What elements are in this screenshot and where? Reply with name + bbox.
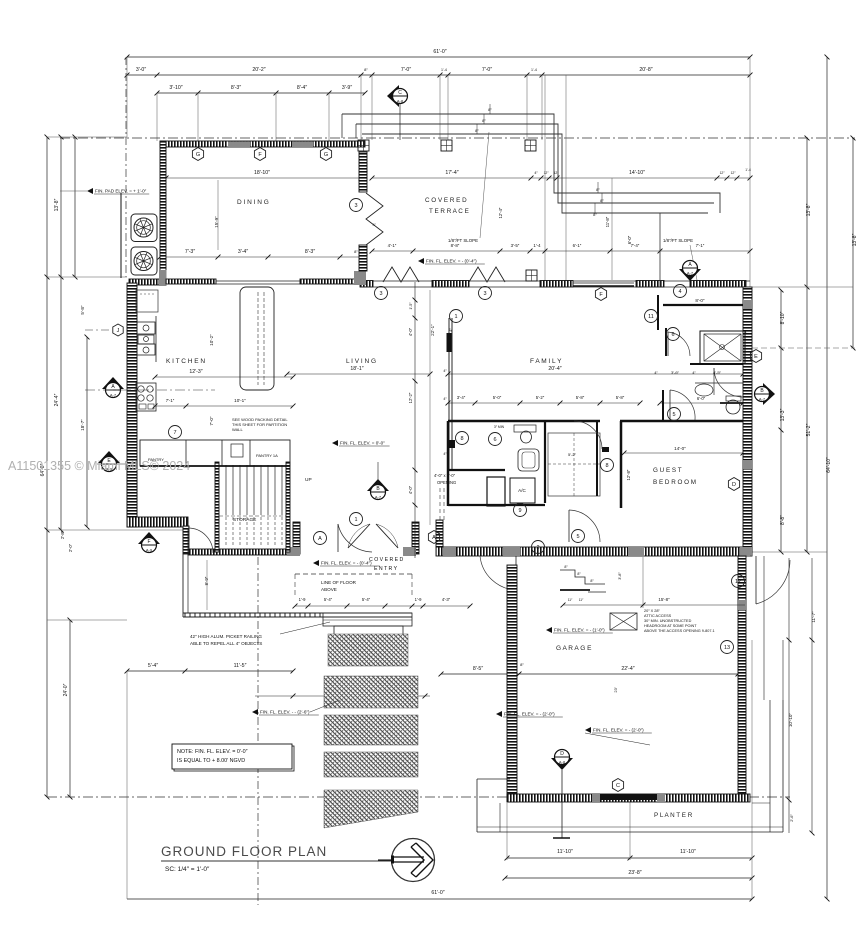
svg-text:3′-5″: 3′-5″ bbox=[511, 243, 520, 248]
svg-text:2′-0″: 2′-0″ bbox=[68, 543, 73, 552]
svg-text:15′-8″: 15′-8″ bbox=[658, 597, 670, 602]
svg-text:1'-4: 1'-4 bbox=[531, 68, 537, 72]
svg-text:3: 3 bbox=[483, 291, 486, 297]
svg-text:FIN. FL. ELEV. = - (0′-4″): FIN. FL. ELEV. = - (0′-4″) bbox=[426, 259, 477, 264]
svg-text:51′-2″: 51′-2″ bbox=[806, 423, 812, 436]
svg-text:5′-4″: 5′-4″ bbox=[324, 597, 333, 602]
svg-text:42″ HIGH ALUM. PICKET RAILING: 42″ HIGH ALUM. PICKET RAILING bbox=[190, 634, 262, 639]
svg-text:SC: 1/4″ = 1′-0″: SC: 1/4″ = 1′-0″ bbox=[165, 866, 210, 873]
svg-text:1'-4: 1'-4 bbox=[441, 68, 447, 72]
svg-text:A11501355 © Miami MLS© 2024: A11501355 © Miami MLS© 2024 bbox=[8, 459, 190, 473]
svg-text:8′-3″: 8′-3″ bbox=[231, 85, 241, 91]
svg-text:OPENING: OPENING bbox=[437, 480, 456, 485]
svg-text:D: D bbox=[732, 482, 736, 488]
svg-text:8′-9″: 8′-9″ bbox=[204, 576, 209, 585]
svg-text:G A R A G E: G A R A G E bbox=[556, 645, 592, 652]
svg-text:18′-10″: 18′-10″ bbox=[254, 170, 270, 176]
svg-text:11′-10″: 11′-10″ bbox=[557, 849, 573, 855]
svg-text:12′-3″: 12′-3″ bbox=[189, 369, 202, 375]
svg-text:C O V E R E D: C O V E R E D bbox=[425, 197, 467, 204]
svg-text:A-8: A-8 bbox=[397, 99, 404, 104]
svg-text:11′-7″: 11′-7″ bbox=[811, 611, 816, 623]
svg-text:7′-3″: 7′-3″ bbox=[185, 249, 195, 255]
svg-text:24′-0″: 24′-0″ bbox=[63, 683, 69, 696]
svg-text:6′-0″: 6′-0″ bbox=[697, 396, 706, 401]
svg-text:8′-10″: 8′-10″ bbox=[780, 311, 786, 324]
svg-text:7′-0″: 7′-0″ bbox=[482, 67, 492, 73]
svg-text:3′-4″: 3′-4″ bbox=[238, 249, 248, 255]
svg-text:FIN. FL. ELEV. - - (2′-6″): FIN. FL. ELEV. - - (2′-6″) bbox=[260, 710, 310, 715]
svg-text:G U E S T: G U E S T bbox=[653, 467, 682, 474]
svg-text:C: C bbox=[398, 90, 402, 96]
svg-text:STORAGE: STORAGE bbox=[233, 517, 256, 523]
svg-text:11′-10″: 11′-10″ bbox=[680, 849, 696, 855]
svg-text:7′-4″: 7′-4″ bbox=[631, 243, 640, 248]
svg-text:4′-1″: 4′-1″ bbox=[388, 243, 397, 248]
svg-text:4′-0″ x 8′-0″: 4′-0″ x 8′-0″ bbox=[434, 473, 456, 478]
svg-text:WALL: WALL bbox=[232, 427, 244, 432]
svg-text:3′-8″: 3′-8″ bbox=[618, 572, 622, 580]
svg-text:G: G bbox=[324, 152, 328, 158]
svg-text:23′: 23′ bbox=[613, 687, 618, 692]
svg-text:30″ MIN. UNOBSTRUCTED: 30″ MIN. UNOBSTRUCTED bbox=[644, 619, 692, 623]
svg-text:3: 3 bbox=[354, 203, 357, 209]
svg-text:64′-10″: 64′-10″ bbox=[826, 457, 832, 473]
svg-text:3′-0″: 3′-0″ bbox=[136, 67, 146, 73]
svg-text:A-7: A-7 bbox=[759, 397, 766, 402]
svg-text:A-7: A-7 bbox=[687, 271, 694, 276]
svg-text:8″: 8″ bbox=[520, 662, 524, 667]
svg-text:8′-4″: 8′-4″ bbox=[297, 85, 307, 91]
svg-text:18′-1″: 18′-1″ bbox=[350, 366, 363, 372]
svg-text:20′-4″: 20′-4″ bbox=[548, 366, 561, 372]
svg-text:13′-8″: 13′-8″ bbox=[54, 198, 60, 211]
svg-text:1: 1 bbox=[454, 314, 457, 320]
svg-text:T E R R A C E: T E R R A C E bbox=[429, 208, 469, 215]
svg-text:3″ MIN: 3″ MIN bbox=[494, 425, 505, 429]
svg-text:8′-0″: 8′-0″ bbox=[695, 298, 705, 303]
svg-text:1: 1 bbox=[354, 517, 357, 523]
svg-text:3′-4″: 3′-4″ bbox=[457, 395, 466, 400]
svg-text:ABOVE: ABOVE bbox=[321, 587, 337, 592]
svg-text:8′-5″: 8′-5″ bbox=[473, 666, 483, 672]
svg-text:K I T C H E N: K I T C H E N bbox=[166, 358, 205, 365]
svg-text:FIN. FL. ELEV. = - (2′-0″): FIN. FL. ELEV. = - (2′-0″) bbox=[504, 712, 555, 717]
svg-text:22′-4″: 22′-4″ bbox=[621, 666, 634, 672]
svg-text:13′-8″: 13′-8″ bbox=[806, 203, 812, 216]
svg-text:F: F bbox=[147, 539, 150, 545]
svg-text:7′-1″: 7′-1″ bbox=[696, 243, 705, 248]
svg-text:LINE OF FLOOR: LINE OF FLOOR bbox=[321, 580, 357, 585]
svg-text:20″ X 28″: 20″ X 28″ bbox=[644, 609, 660, 613]
svg-text:12″: 12″ bbox=[731, 171, 737, 175]
svg-text:5′-8″: 5′-8″ bbox=[80, 305, 85, 315]
svg-text:1'-9: 1'-9 bbox=[299, 597, 307, 602]
svg-text:8′-3″: 8′-3″ bbox=[305, 249, 315, 255]
svg-text:7′-1″: 7′-1″ bbox=[166, 398, 175, 403]
svg-text:12″: 12″ bbox=[720, 171, 726, 175]
svg-text:13: 13 bbox=[724, 645, 730, 651]
svg-text:20′-2″: 20′-2″ bbox=[252, 67, 265, 73]
svg-text:3: 3 bbox=[379, 291, 382, 297]
svg-text:17′-4″: 17′-4″ bbox=[445, 170, 458, 176]
svg-text:1′-5″: 1′-5″ bbox=[409, 302, 413, 310]
svg-text:4′-5″: 4′-5″ bbox=[713, 370, 722, 375]
svg-text:L I V I N G: L I V I N G bbox=[346, 358, 376, 365]
svg-text:3′-10″: 3′-10″ bbox=[169, 85, 182, 91]
svg-text:5′-8″: 5′-8″ bbox=[576, 395, 585, 400]
svg-text:5: 5 bbox=[576, 534, 579, 540]
svg-text:5: 5 bbox=[672, 412, 675, 418]
svg-text:13′-8″: 13′-8″ bbox=[852, 233, 858, 246]
svg-text:5′-0″: 5′-0″ bbox=[493, 395, 502, 400]
svg-text:8″: 8″ bbox=[600, 198, 604, 203]
svg-text:2: 2 bbox=[536, 545, 539, 551]
svg-text:5′-4″: 5′-4″ bbox=[148, 663, 158, 669]
svg-text:12: 12 bbox=[735, 579, 741, 585]
svg-text:D: D bbox=[560, 751, 564, 757]
svg-text:FIN. FL. ELEV. = 0′-0″: FIN. FL. ELEV. = 0′-0″ bbox=[340, 441, 385, 446]
svg-text:12″: 12″ bbox=[544, 171, 550, 175]
svg-text:8″: 8″ bbox=[488, 107, 492, 112]
svg-text:FIN. FL. ELEV. = - (0′-4″): FIN. FL. ELEV. = - (0′-4″) bbox=[321, 561, 372, 566]
svg-text:11′-5″: 11′-5″ bbox=[234, 663, 247, 669]
svg-text:8: 8 bbox=[605, 463, 608, 469]
svg-text:3′-9″: 3′-9″ bbox=[342, 85, 352, 91]
svg-text:A: A bbox=[432, 535, 436, 541]
svg-text:C O V E R E D: C O V E R E D bbox=[369, 557, 404, 563]
svg-text:2′-8″: 2′-8″ bbox=[60, 530, 65, 539]
svg-text:4: 4 bbox=[678, 289, 681, 295]
svg-text:1'-4: 1'-4 bbox=[745, 168, 751, 172]
svg-text:NOTE: FIN. FL. ELEV. = 0′: NOTE: FIN. FL. ELEV. = 0′-0″ bbox=[177, 749, 248, 755]
svg-text:12′-8″: 12′-8″ bbox=[626, 469, 631, 480]
svg-text:4′-3″: 4′-3″ bbox=[442, 597, 451, 602]
svg-text:4′-0″: 4′-0″ bbox=[408, 485, 413, 494]
svg-text:6′-1″: 6′-1″ bbox=[573, 243, 582, 248]
svg-text:11′-8″: 11′-8″ bbox=[605, 216, 610, 227]
svg-text:11: 11 bbox=[648, 314, 654, 320]
svg-text:5′-8″: 5′-8″ bbox=[616, 395, 625, 400]
svg-text:12′-4″: 12′-4″ bbox=[498, 207, 503, 218]
svg-text:A: A bbox=[318, 536, 322, 542]
svg-text:G: G bbox=[196, 152, 200, 158]
svg-text:6: 6 bbox=[671, 332, 674, 338]
svg-text:9: 9 bbox=[518, 508, 521, 514]
svg-text:UP: UP bbox=[305, 477, 312, 483]
svg-text:12′-2″: 12′-2″ bbox=[408, 392, 413, 403]
svg-text:5′-4″: 5′-4″ bbox=[362, 597, 371, 602]
svg-text:ABOVE THE ACCESS OPENING 9-807: ABOVE THE ACCESS OPENING 9-807.1 bbox=[644, 629, 715, 633]
svg-text:1'-9: 1'-9 bbox=[415, 597, 423, 602]
svg-text:1'-4: 1'-4 bbox=[533, 243, 541, 248]
svg-text:14′-10″: 14′-10″ bbox=[629, 170, 645, 176]
svg-text:24′-4″: 24′-4″ bbox=[54, 393, 60, 406]
svg-text:PANTRY 1A: PANTRY 1A bbox=[256, 453, 278, 458]
svg-text:23′-8″: 23′-8″ bbox=[628, 870, 641, 876]
svg-text:IS EQUAL TO + 8.00′ NGVD: IS EQUAL TO + 8.00′ NGVD bbox=[177, 758, 245, 764]
svg-text:P L A N T E R: P L A N T E R bbox=[654, 812, 693, 819]
svg-text:A-8: A-8 bbox=[559, 760, 566, 765]
svg-text:ABLE TO REPEL ALL 4″ OBJECTS: ABLE TO REPEL ALL 4″ OBJECTS bbox=[190, 641, 262, 646]
svg-text:20′-8″: 20′-8″ bbox=[639, 67, 652, 73]
svg-text:13′-3″: 13′-3″ bbox=[780, 408, 786, 421]
svg-text:F A M I L Y: F A M I L Y bbox=[530, 358, 562, 365]
svg-text:A/C: A/C bbox=[518, 488, 526, 493]
svg-text:D I N I N G: D I N I N G bbox=[237, 199, 269, 206]
svg-text:B E D R O O M: B E D R O O M bbox=[653, 479, 696, 486]
svg-text:J: J bbox=[117, 328, 120, 334]
svg-text:FIN. FL. ELEV. = - (1′-0″): FIN. FL. ELEV. = - (1′-0″) bbox=[554, 628, 605, 633]
svg-text:8″: 8″ bbox=[482, 118, 486, 123]
svg-text:FIN. FL. ELEV. = - (2′-0″): FIN. FL. ELEV. = - (2′-0″) bbox=[593, 728, 644, 733]
svg-text:4′-0″: 4′-0″ bbox=[408, 327, 413, 336]
svg-text:3′-6″: 3′-6″ bbox=[671, 370, 680, 375]
svg-text:6: 6 bbox=[493, 437, 496, 443]
svg-text:18′-7″: 18′-7″ bbox=[80, 419, 85, 431]
svg-text:22′-1″: 22′-1″ bbox=[430, 324, 435, 336]
svg-text:8″: 8″ bbox=[364, 67, 368, 72]
svg-text:14′-0″: 14′-0″ bbox=[674, 446, 686, 451]
svg-text:10′-1″: 10′-1″ bbox=[234, 398, 246, 403]
svg-text:HEADROOM AT SOME POINT: HEADROOM AT SOME POINT bbox=[644, 624, 697, 628]
svg-text:C: C bbox=[616, 783, 620, 789]
svg-text:8″: 8″ bbox=[596, 187, 600, 192]
svg-text:4′: 4′ bbox=[373, 222, 376, 227]
svg-text:A-7: A-7 bbox=[110, 393, 117, 398]
svg-text:8″: 8″ bbox=[475, 128, 479, 133]
svg-text:7′-0″: 7′-0″ bbox=[209, 416, 214, 426]
svg-text:FIN. PAD ELEV. = + 1′-0″: FIN. PAD ELEV. = + 1′-0″ bbox=[95, 189, 147, 194]
svg-text:7′-0″: 7′-0″ bbox=[401, 67, 411, 73]
svg-text:5′-2″: 5′-2″ bbox=[536, 395, 545, 400]
svg-text:8′-8″: 8′-8″ bbox=[451, 243, 460, 248]
svg-text:5′-2″: 5′-2″ bbox=[568, 452, 577, 457]
svg-text:A-9: A-9 bbox=[146, 548, 153, 553]
svg-text:A-7: A-7 bbox=[375, 495, 382, 500]
svg-text:E N T R Y: E N T R Y bbox=[374, 566, 398, 572]
svg-text:E: E bbox=[754, 354, 758, 360]
svg-text:8″: 8″ bbox=[354, 249, 358, 254]
svg-text:61′-0″: 61′-0″ bbox=[433, 49, 446, 55]
svg-text:10′-10″: 10′-10″ bbox=[788, 713, 793, 728]
svg-text:1/8″/FT SLOPE: 1/8″/FT SLOPE bbox=[448, 238, 478, 243]
svg-text:ATTIC ACCESS: ATTIC ACCESS bbox=[644, 614, 672, 618]
svg-text:GROUND FLOOR PLAN: GROUND FLOOR PLAN bbox=[161, 844, 327, 859]
svg-text:8: 8 bbox=[460, 436, 463, 442]
svg-text:8′-8″: 8′-8″ bbox=[780, 515, 786, 525]
svg-text:61′-0″: 61′-0″ bbox=[431, 890, 444, 896]
svg-text:10′-2″: 10′-2″ bbox=[209, 334, 214, 346]
svg-text:1/8″/FT SLOPE: 1/8″/FT SLOPE bbox=[663, 238, 693, 243]
svg-text:2′-6″: 2′-6″ bbox=[790, 814, 794, 822]
svg-text:8″: 8″ bbox=[593, 212, 597, 217]
svg-text:7: 7 bbox=[173, 430, 176, 436]
